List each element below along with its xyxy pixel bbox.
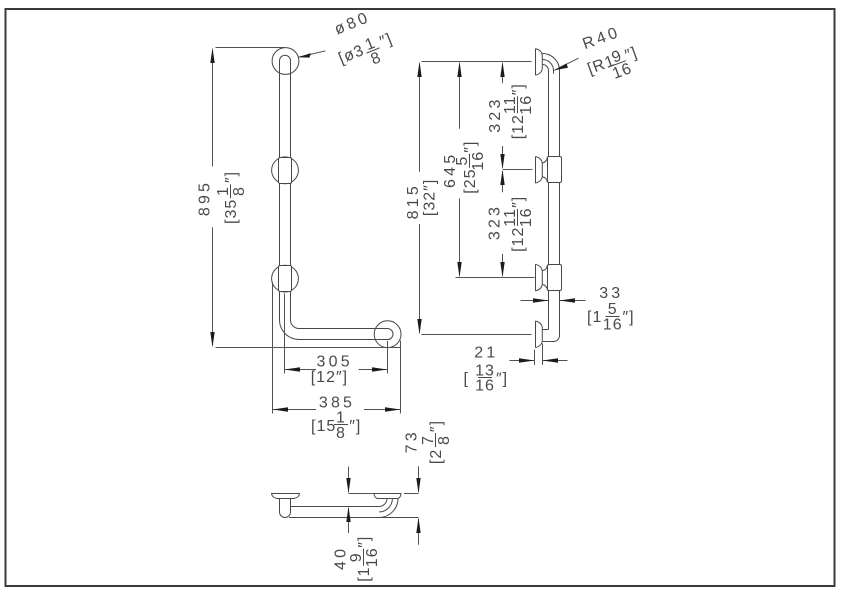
svg-text:″]: ″] — [496, 370, 508, 387]
front view: grab bar tube (vertical bar, bend, horizontal bar with end cap) — [280, 55, 394, 339]
text dia 80 label — [332, 9, 373, 39]
arrow 323-1 top — [500, 62, 504, 78]
arrow 815 bottom — [417, 319, 421, 335]
arrow 815 top — [417, 62, 421, 78]
svg-text:″]: ″] — [462, 141, 479, 153]
side view: bar segment 3 — [549, 291, 560, 336]
text 895 — [197, 180, 214, 216]
bottom view: right bend seam arc — [379, 499, 392, 512]
bottom view: right bend inner arc — [379, 499, 387, 507]
svg-text:323: 323 — [487, 204, 504, 240]
side view shared top extension line — [422, 61, 532, 63]
arrow 323-2 top — [500, 170, 504, 186]
dim 73 dimension line — [418, 466, 420, 545]
arrow 73 bottom — [416, 518, 420, 534]
side view: bar segment 2 — [549, 183, 560, 265]
leader line for dia 80 — [298, 51, 326, 57]
arrow 40 bottom — [346, 507, 350, 523]
svg-text:8: 8 — [231, 186, 248, 196]
svg-text:16: 16 — [364, 547, 381, 567]
svg-text:815: 815 — [405, 183, 422, 219]
svg-text:″]: ″] — [356, 536, 373, 548]
dim 385 extension line right — [400, 341, 402, 414]
svg-text:16: 16 — [470, 151, 487, 171]
arrow 385 right — [385, 407, 401, 411]
front view: top wall flange circle — [272, 48, 299, 75]
text 815 — [405, 183, 422, 219]
svg-text:11: 11 — [502, 208, 519, 227]
arrow 645 bottom — [457, 262, 461, 278]
svg-text:16: 16 — [603, 316, 623, 333]
svg-text:[25: [25 — [462, 168, 479, 193]
text 323 lower — [487, 204, 504, 240]
arrow 73 top — [416, 478, 420, 494]
arrow 385 left — [273, 407, 289, 411]
text [1 5/16"] — [587, 301, 635, 333]
arrow 33 left — [533, 298, 549, 302]
dim 895 dimension line — [212, 50, 214, 345]
bottom view wall extension line — [349, 493, 419, 495]
arrow 645 top — [457, 62, 461, 78]
svg-text:11: 11 — [502, 95, 519, 114]
svg-text:″]: ″] — [510, 196, 527, 208]
dim 323-1 dimension line — [502, 64, 504, 168]
arrow 21 right — [543, 358, 559, 362]
text [35 1/8"] — [215, 171, 248, 224]
svg-text:[12: [12 — [510, 114, 527, 139]
svg-text:[15: [15 — [311, 418, 336, 435]
text R40 label — [580, 24, 622, 53]
bottom view: bar top edge — [291, 506, 380, 508]
svg-text:9: 9 — [348, 552, 365, 562]
bottom view: left flange stem with rounded end — [280, 499, 291, 518]
front view: upper middle flange circle — [272, 157, 299, 184]
svg-text:33: 33 — [599, 285, 623, 302]
text [13/16"] — [464, 362, 509, 394]
bottom view: right bend outer arc — [379, 499, 398, 518]
svg-text:305: 305 — [317, 354, 353, 371]
dim 305 dimension line — [285, 369, 388, 371]
side view: middle flange 2 dome — [536, 264, 543, 291]
dim 815 dimension line — [419, 64, 421, 333]
dim 305 extension line left — [284, 294, 286, 374]
svg-text:[12″]: [12″] — [311, 369, 348, 386]
side view: bar segment 1 — [549, 71, 560, 157]
dim 21 extension lines — [535, 344, 543, 365]
dim 33 dimension line — [521, 300, 586, 302]
svg-text:40: 40 — [332, 546, 349, 570]
svg-text:″]: ″] — [378, 31, 396, 51]
arrow 33 right — [560, 298, 576, 302]
dim 815 extension line bottom — [422, 334, 532, 336]
text 645 — [442, 152, 459, 188]
bottom view: left flange cap — [272, 494, 300, 499]
front view: right end flange circle — [374, 321, 401, 348]
svg-text:[12: [12 — [510, 227, 527, 252]
svg-text:″]: ″] — [223, 171, 240, 183]
svg-text:16: 16 — [475, 378, 495, 395]
side view: bottom tube end into flange — [543, 330, 560, 342]
leader line for R40 — [554, 58, 578, 70]
text [1 9/16"] — [348, 536, 381, 582]
front view: upper middle flange collar — [279, 158, 292, 184]
dim 895 extension line top — [216, 47, 286, 49]
text [25 5/16"] — [454, 141, 487, 194]
svg-text:ø80: ø80 — [332, 9, 373, 39]
arrow 305 right — [372, 367, 388, 371]
svg-text:[32″]: [32″] — [421, 179, 438, 216]
side view: top bend seam arc — [543, 60, 554, 74]
arrow 40 top — [346, 478, 350, 494]
svg-text:[1: [1 — [587, 309, 602, 326]
svg-text:5: 5 — [454, 156, 471, 166]
front view: lower middle flange collar — [279, 266, 292, 292]
arrow 895 top — [210, 48, 214, 64]
side view: bottom flange dome — [536, 321, 543, 348]
svg-text:[ø3: [ø3 — [336, 42, 367, 68]
side view: middle flange 2 neck curves — [542, 265, 547, 291]
svg-text:″]: ″] — [623, 309, 635, 326]
svg-text:7: 7 — [420, 435, 437, 445]
arrow 21 left — [519, 358, 535, 362]
dim 645 dimension line — [459, 64, 461, 276]
dim 323-1 extension line at middle flange 1 — [503, 169, 533, 171]
side view: middle flange 1 dome — [536, 157, 543, 184]
text [dia 3 1/8"] label — [335, 28, 400, 79]
bottom view: bar bottom edge and extension to dims — [289, 517, 419, 519]
svg-text:8: 8 — [336, 425, 346, 442]
arrow 895 bottom — [210, 332, 214, 348]
svg-text:[35: [35 — [223, 199, 240, 224]
text [12 11/16"] lower — [502, 196, 535, 252]
svg-text:″]: ″] — [349, 418, 361, 435]
arrow 323-1 bottom — [500, 154, 504, 170]
svg-text:8: 8 — [436, 435, 453, 445]
text [R1 9/16"] label — [585, 42, 645, 90]
dim 21 dimension line — [510, 360, 568, 362]
text 73 — [403, 429, 420, 453]
bottom view: right flange cap — [374, 494, 401, 499]
svg-text:16: 16 — [518, 208, 535, 228]
dim 40 dimension line — [348, 467, 350, 534]
dim 305 extension line right — [387, 341, 389, 374]
svg-text:″]: ″] — [510, 83, 527, 95]
svg-text:73: 73 — [403, 429, 420, 453]
dim 323-2 dimension line — [502, 172, 504, 276]
svg-text:[1: [1 — [356, 566, 373, 581]
arrow 305 left — [285, 367, 301, 371]
dim 385 dimension line — [273, 409, 401, 411]
text [32"] — [421, 179, 438, 216]
svg-text:21: 21 — [474, 344, 498, 361]
svg-text:1: 1 — [215, 186, 232, 196]
front view: lower middle flange circle — [272, 265, 299, 292]
svg-text:8: 8 — [369, 49, 385, 68]
arrow leader R40 — [554, 64, 568, 71]
side view: middle flange 1 neck curves — [542, 157, 547, 183]
text 323 upper — [487, 96, 504, 132]
side view: middle flange 2 collar — [548, 265, 562, 291]
text 40 — [332, 546, 349, 570]
text [15 1/8"] — [311, 409, 361, 441]
svg-text:895: 895 — [197, 180, 214, 216]
side view: top bend outer arc — [543, 54, 560, 71]
side view: top flange dome — [536, 49, 543, 76]
svg-text:″]: ″] — [428, 420, 445, 432]
text [12 11/16"] upper — [502, 83, 535, 139]
dim 385 extension line left — [272, 282, 274, 414]
svg-text:16: 16 — [518, 95, 535, 115]
arrow 323-2 bottom — [500, 262, 504, 278]
text [2 7/8"] — [420, 420, 453, 464]
arrow leader dia80 — [298, 53, 311, 58]
dim 895 extension line bottom — [216, 347, 401, 349]
svg-text:[: [ — [464, 370, 469, 387]
svg-text:[2: [2 — [428, 449, 445, 464]
side view: top bend inner arc — [543, 65, 549, 71]
side view: middle flange 1 collar — [548, 157, 562, 183]
dim 645 / 323-2 extension line at middle flange 2 — [456, 277, 535, 279]
